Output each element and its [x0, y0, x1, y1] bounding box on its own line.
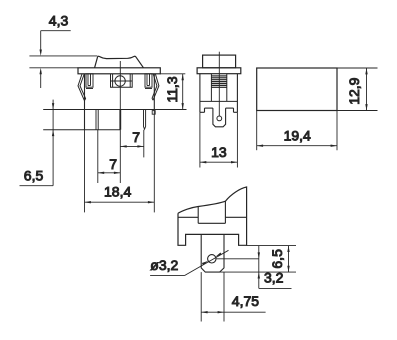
dimension 18,4	[85, 110, 155, 213]
left leg	[86, 74, 93, 89]
svg-text:ø3,2: ø3,2	[150, 257, 178, 273]
right leg	[145, 74, 152, 89]
dimension 13	[200, 112, 238, 167]
right thin terminal	[144, 110, 146, 130]
outline bottom view	[178, 187, 247, 245]
extension line flange top left	[29, 67, 78, 69]
central lower block	[201, 234, 224, 272]
flank bottoms	[178, 216, 198, 218]
bottom profile side	[200, 108, 238, 112]
svg-text:19,4: 19,4	[284, 127, 311, 143]
dimension 6,5 left	[20, 100, 55, 186]
terminal hole	[217, 116, 222, 121]
left snap wing	[78, 74, 84, 101]
dimension 3,2	[258, 246, 292, 289]
lower block verticals	[84, 110, 86, 130]
svg-text:7: 7	[132, 129, 140, 145]
diameter leader	[150, 250, 228, 275]
rocker button front	[95, 56, 144, 67]
right dimension chain extension lines	[205, 246, 296, 273]
extension line rocker top	[29, 55, 97, 57]
svg-text:18,4: 18,4	[104, 184, 131, 200]
rocker side	[203, 55, 236, 68]
dimension 7 upper	[120, 130, 144, 158]
flange side	[197, 68, 241, 74]
lower step bottom line L2	[43, 129, 120, 131]
body bottom line L1	[43, 109, 186, 111]
svg-text:13: 13	[211, 144, 227, 160]
svg-text:3,2: 3,2	[264, 270, 284, 286]
dimension 12,9	[337, 68, 378, 111]
inner shelf	[200, 100, 238, 102]
dimension 4,3	[40, 31, 71, 88]
dimension 19,4	[257, 111, 337, 151]
body right edge	[153, 74, 155, 110]
svg-text:4,75: 4,75	[232, 293, 259, 309]
rocker divider lines	[197, 207, 199, 224]
dimension 11,3	[160, 74, 185, 110]
center axis front	[119, 61, 121, 130]
body sides	[199, 74, 201, 113]
inner column	[210, 74, 212, 102]
svg-text:6,5: 6,5	[269, 249, 285, 269]
dimension 4,75	[201, 272, 265, 321]
svg-text:4,3: 4,3	[49, 13, 69, 29]
svg-text:11,3: 11,3	[164, 76, 180, 102]
dimension 6,5 right	[287, 246, 289, 273]
svg-text:6,5: 6,5	[24, 167, 44, 183]
dimension 7 lower	[98, 130, 121, 183]
axis side	[218, 52, 220, 116]
spring hatch	[211, 76, 226, 87]
hole circle	[208, 255, 216, 263]
body left edge	[84, 74, 86, 110]
middle block bottom	[198, 222, 225, 224]
right snap wing	[153, 74, 159, 100]
svg-text:7: 7	[109, 156, 117, 172]
center square with circle	[111, 74, 133, 87]
small square detail right	[152, 111, 155, 115]
flange front	[78, 68, 160, 74]
terminal side	[213, 108, 226, 127]
svg-text:12,9: 12,9	[346, 77, 362, 104]
housing outline rect	[257, 68, 337, 111]
